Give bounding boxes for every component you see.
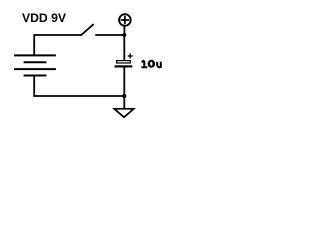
wire battery bottom to ground node <box>34 76 124 97</box>
battery BT1 plate long bottom <box>14 68 56 70</box>
ground symbol <box>114 109 133 117</box>
ground stem <box>123 96 125 109</box>
power flag VDD circle-plus <box>119 14 131 26</box>
capacitor C1 bottom plate <box>115 65 133 67</box>
capacitor C1 plus mark <box>128 54 133 59</box>
wire capacitor to ground node <box>123 68 125 97</box>
battery BT1 plate long top <box>14 54 56 56</box>
junction dot top <box>122 33 126 37</box>
svg-text:VDD 9V: VDD 9V <box>22 11 67 25</box>
battery BT1 plate short <box>24 61 47 63</box>
value label 10u <box>141 60 160 68</box>
wire switch to VDD node <box>95 34 124 36</box>
wire node to capacitor <box>123 35 125 60</box>
wire VDD stub <box>123 26 125 35</box>
wire battery top to switch <box>34 35 81 56</box>
switch SW1 lever <box>81 24 94 35</box>
junction dot bottom <box>122 94 126 98</box>
capacitor C1 top plate <box>117 61 131 63</box>
battery BT1 plate short bottom <box>24 75 47 77</box>
